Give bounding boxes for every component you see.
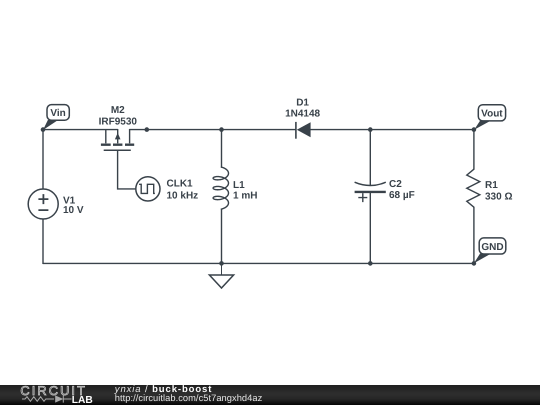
- node label GND: [474, 238, 506, 263]
- wire M2 gate to CLK1: [118, 150, 136, 189]
- resistor R1: [467, 169, 480, 207]
- ground: [209, 263, 233, 288]
- svg-text:LAB: LAB: [72, 395, 93, 405]
- node dot C2 bottom: [368, 261, 373, 266]
- wire L1 branch top: [221, 130, 223, 167]
- voltage source V1: [28, 189, 58, 219]
- wire bottom rail: [43, 262, 474, 264]
- node dot Vout: [472, 127, 477, 132]
- svg-text:Vout: Vout: [481, 109, 503, 120]
- svg-text:Vin: Vin: [50, 108, 65, 119]
- node dot L1 top: [219, 127, 224, 132]
- wire V1 bottom to bottom rail: [42, 219, 44, 264]
- svg-text:1N4148: 1N4148: [285, 108, 320, 119]
- logo resistor-diode line: [22, 395, 72, 402]
- svg-text:D1: D1: [296, 97, 309, 108]
- svg-text:CLK1: CLK1: [167, 179, 194, 190]
- svg-text:10 V: 10 V: [63, 205, 84, 216]
- svg-text:R1: R1: [485, 180, 498, 191]
- diode D1: [296, 122, 311, 139]
- svg-text:M2: M2: [111, 105, 125, 116]
- svg-text:http://circuitlab.com/c5t7angx: http://circuitlab.com/c5t7angxhd4az: [115, 393, 263, 403]
- capacitor C2: [355, 182, 386, 202]
- wire C2 branch top: [369, 130, 371, 186]
- inductor L1: [213, 167, 228, 209]
- wire D1 anode to Vout node: [311, 129, 474, 131]
- wire L1 branch bottom: [221, 209, 223, 263]
- wire R1 branch top: [473, 130, 475, 170]
- svg-text:IRF9530: IRF9530: [99, 116, 138, 127]
- svg-text:330 Ω: 330 Ω: [485, 192, 512, 203]
- svg-text:L1: L1: [233, 180, 245, 191]
- wire R1 branch bottom: [473, 207, 475, 263]
- node dot drain junction: [145, 127, 150, 132]
- node label Vin: [43, 105, 69, 130]
- svg-text:GND: GND: [481, 242, 503, 253]
- wire M2 drain to D1: [130, 129, 296, 131]
- clock source CLK1: [136, 177, 160, 201]
- svg-text:68 µF: 68 µF: [389, 190, 415, 201]
- mosfet M2: [101, 130, 134, 151]
- node label Vout: [474, 105, 505, 130]
- svg-text:C2: C2: [389, 179, 402, 190]
- node dot C2 top: [368, 127, 373, 132]
- svg-text:10 kHz: 10 kHz: [167, 191, 199, 202]
- node dot ground junction: [219, 261, 224, 266]
- wire C2 branch bottom: [369, 192, 371, 263]
- wire left rail down to V1: [42, 130, 44, 190]
- wire top left (Vin rail): [43, 129, 118, 131]
- node dot Vin: [41, 127, 46, 132]
- footer bar: [0, 385, 540, 405]
- node dot GND label: [472, 261, 477, 266]
- svg-text:1 mH: 1 mH: [233, 190, 257, 201]
